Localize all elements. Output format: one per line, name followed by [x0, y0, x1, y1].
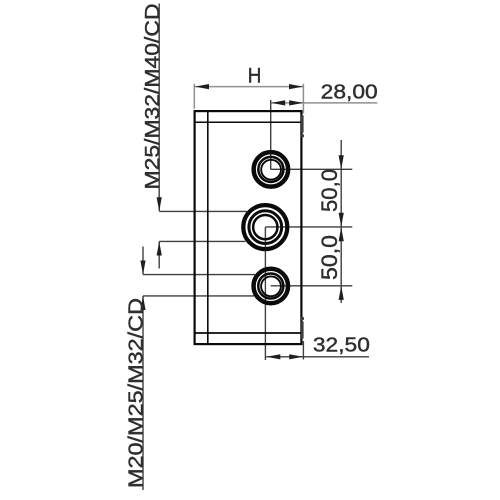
svg-text:M20/M25/M32/CD: M20/M25/M32/CD	[126, 298, 148, 488]
svg-text:32,50: 32,50	[313, 335, 370, 357]
svg-text:28,00: 28,00	[321, 81, 378, 103]
svg-text:M25/M32/M40/CD: M25/M32/M40/CD	[142, 3, 164, 189]
svg-text:50,0: 50,0	[317, 169, 342, 212]
svg-text:H: H	[248, 63, 262, 87]
svg-text:50,0: 50,0	[317, 235, 342, 280]
